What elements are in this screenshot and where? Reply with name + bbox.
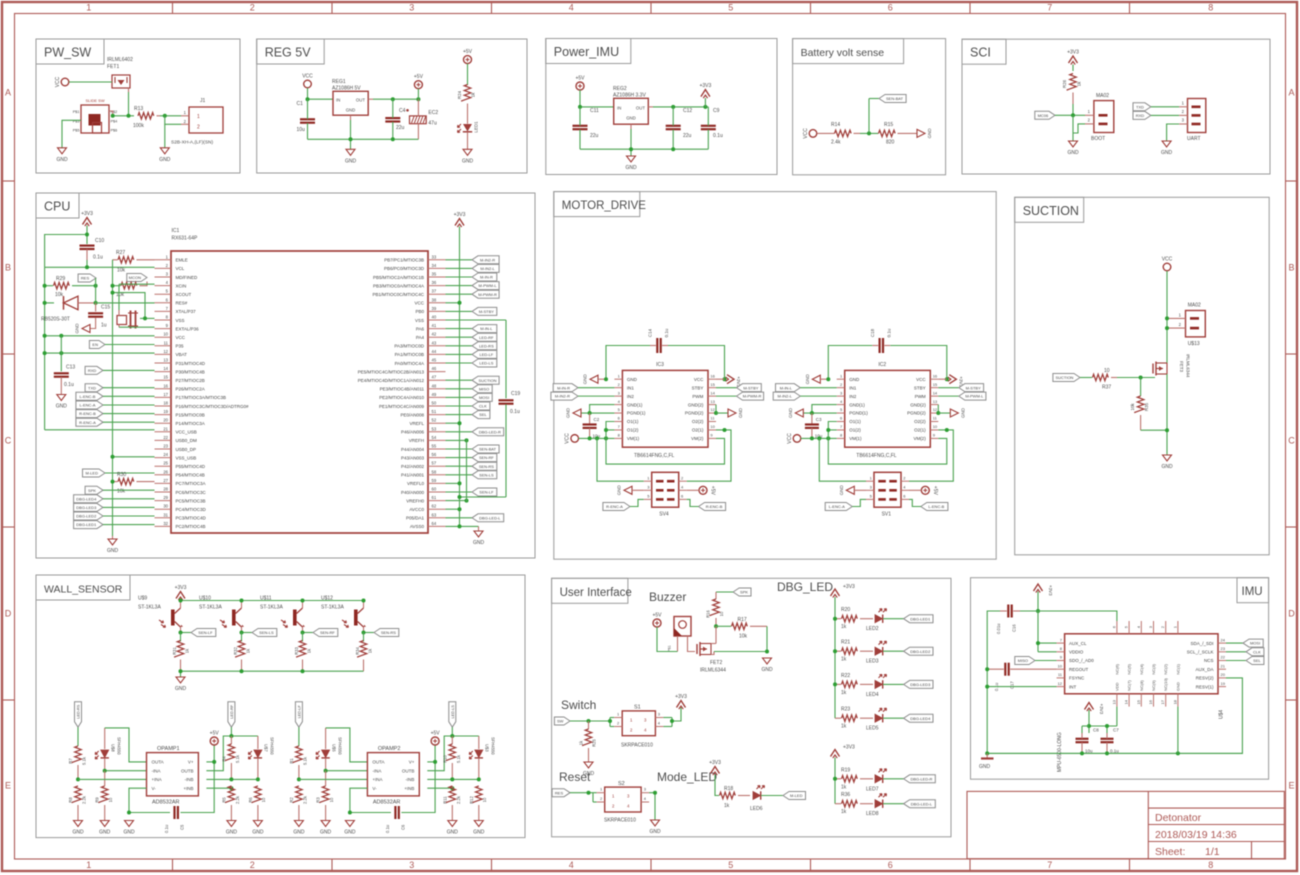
net label LED-RF (vertical)	[228, 702, 235, 728]
svg-text:R19: R19	[841, 767, 850, 773]
junction	[179, 631, 183, 635]
svg-text:PE3/MTIOC4B/AN011: PE3/MTIOC4B/AN011	[380, 387, 425, 392]
svg-text:RXD: RXD	[1136, 113, 1145, 118]
svg-text:TXD: TXD	[88, 385, 96, 390]
wire +5V down	[417, 89, 419, 100]
svg-text:SPK: SPK	[88, 488, 96, 493]
svg-text:0.1u: 0.1u	[1110, 749, 1119, 754]
svg-text:O1(1): O1(1)	[849, 419, 861, 424]
svg-text:WALL_SENSOR: WALL_SENSOR	[44, 584, 123, 596]
svg-text:LED2: LED2	[866, 626, 879, 632]
svg-text:R7: R7	[68, 758, 73, 764]
svg-text:R13: R13	[134, 106, 143, 112]
net label M-STBY	[938, 384, 983, 392]
svg-text:43: 43	[432, 340, 437, 345]
wire -INA row	[103, 769, 147, 773]
op-amp OPAMP1 AD8532AR	[147, 746, 199, 806]
svg-text:C9: C9	[713, 108, 720, 114]
net label LED-RS (vertical)	[75, 702, 82, 728]
svg-text:C2: C2	[594, 417, 600, 422]
svg-text:13: 13	[710, 399, 715, 404]
LED U$3 SFH4550	[469, 736, 495, 779]
svg-text:14: 14	[163, 366, 168, 371]
wire R14 to node	[860, 132, 878, 134]
svg-text:5.1k: 5.1k	[235, 754, 240, 763]
wire GND(1)/PGND(1)	[803, 405, 836, 415]
svg-text:R27: R27	[116, 250, 125, 256]
net label CLK (IMU)	[1226, 648, 1264, 656]
svg-text:PGND(2): PGND(2)	[907, 411, 926, 416]
net label L-ENC-B	[76, 392, 155, 400]
svg-text:1k: 1k	[841, 809, 847, 815]
svg-text:C13: C13	[66, 365, 75, 371]
svg-text:+3V3: +3V3	[175, 585, 187, 591]
net label LED-LS (vertical)	[449, 702, 456, 728]
svg-text:M-PWM-L: M-PWM-L	[965, 394, 984, 399]
svg-text:C5: C5	[180, 824, 185, 830]
svg-text:GND: GND	[625, 165, 637, 171]
junction	[1036, 609, 1040, 613]
svg-text:GND: GND	[72, 830, 84, 836]
svg-text:IN2: IN2	[849, 394, 857, 399]
svg-text:53: 53	[432, 426, 437, 431]
svg-text:RB520S-30T: RB520S-30T	[41, 317, 70, 323]
svg-text:ST-1KL3A: ST-1KL3A	[321, 605, 344, 611]
svg-text:GND: GND	[345, 158, 357, 164]
svg-text:SLIDE SW: SLIDE SW	[86, 98, 105, 103]
svg-text:P42/AN002: P42/AN002	[401, 464, 425, 469]
svg-text:VCC_USB: VCC_USB	[176, 430, 197, 435]
svg-text:EXTAL/P36: EXTAL/P36	[176, 326, 200, 331]
svg-text:PB1/MTIOC0C/MTIOC4C: PB1/MTIOC0C/MTIOC4C	[372, 292, 424, 297]
buzzer BZ1	[668, 617, 696, 653]
resistor R11 2.2k	[442, 786, 461, 821]
svg-text:BOOT: BOOT	[1091, 136, 1105, 142]
svg-text:LED8: LED8	[866, 811, 879, 817]
svg-text:0.1u: 0.1u	[886, 328, 891, 337]
svg-text:RX631-64P: RX631-64P	[172, 236, 199, 242]
svg-text:FET1: FET1	[107, 64, 119, 70]
svg-text:12: 12	[163, 349, 168, 354]
svg-text:SEN-RS: SEN-RS	[381, 630, 396, 635]
svg-text:R35: R35	[1144, 402, 1149, 411]
svg-text:SUCTION: SUCTION	[479, 378, 497, 383]
svg-text:RES: RES	[555, 790, 564, 795]
ground	[462, 149, 474, 164]
svg-text:VM(2): VM(2)	[691, 436, 704, 441]
svg-text:10k: 10k	[55, 292, 64, 298]
net label LED-RF	[446, 333, 497, 341]
junction	[985, 667, 989, 671]
ground (PGND)	[788, 407, 804, 418]
svg-text:15: 15	[933, 382, 938, 387]
capacitor C13 0.1u	[54, 336, 76, 395]
svg-text:STBY: STBY	[692, 385, 704, 390]
svg-text:VM(2): VM(2)	[913, 436, 926, 441]
svg-text:P35: P35	[176, 344, 185, 349]
net label SEN-RF	[446, 454, 497, 462]
connector SV4	[644, 472, 687, 517]
svg-text:VCC: VCC	[787, 433, 793, 444]
svg-text:NC(9): NC(9)	[1151, 680, 1156, 691]
svg-text:IRLML6402: IRLML6402	[107, 57, 133, 63]
svg-text:DBG-LED4: DBG-LED4	[76, 496, 97, 501]
wire to rail	[446, 499, 469, 503]
svg-text:+3V3: +3V3	[709, 760, 721, 766]
power net VCC	[302, 74, 313, 88]
wire C14 loop left	[828, 346, 872, 380]
svg-text:GND: GND	[1161, 464, 1173, 470]
svg-text:U$11: U$11	[260, 596, 272, 602]
net label SUCTION	[446, 376, 500, 384]
svg-text:GND: GND	[293, 830, 305, 836]
net label DBG-LED-R	[446, 428, 504, 436]
svg-text:10: 10	[329, 797, 334, 802]
svg-text:1k: 1k	[841, 724, 847, 730]
svg-text:OUT: OUT	[356, 98, 365, 103]
svg-text:O2(1): O2(1)	[914, 428, 926, 433]
wire O2 to SV pin2	[687, 428, 731, 481]
regulator REG2 AZ1086H 3.3V	[613, 86, 653, 129]
svg-text:O1(2): O1(2)	[627, 428, 639, 433]
svg-text:PA4: PA4	[416, 335, 425, 340]
wire RXD to UART pin2	[1151, 114, 1179, 116]
ground (pin1)	[583, 373, 609, 384]
wire R13 to J1	[160, 115, 181, 117]
svg-text:INT: INT	[1069, 684, 1077, 689]
ground (SV pin3)	[617, 485, 644, 496]
svg-text:R8: R8	[68, 797, 73, 803]
svg-text:VREFL0: VREFL0	[407, 481, 425, 486]
svg-text:D: D	[1288, 609, 1295, 619]
resistor R7 5.1k	[68, 727, 87, 779]
net label DBG-LED2	[883, 647, 933, 655]
svg-text:GND: GND	[738, 407, 743, 418]
svg-text:+5V: +5V	[652, 613, 662, 619]
ground (pin1)	[805, 373, 831, 384]
svg-text:40: 40	[432, 315, 437, 320]
svg-text:12: 12	[1058, 681, 1063, 686]
power net VCC	[565, 433, 579, 444]
svg-text:45: 45	[432, 358, 437, 363]
LED LED7	[866, 769, 887, 793]
net label DBG-LED1	[883, 615, 933, 623]
svg-text:L-ENC-A: L-ENC-A	[79, 403, 95, 408]
svg-text:P40/AN000: P40/AN000	[401, 490, 425, 495]
svg-text:17: 17	[1160, 699, 1165, 704]
capacitor EC2 47u electrolytic	[410, 99, 439, 139]
svg-text:25: 25	[163, 461, 168, 466]
svg-text:1k: 1k	[841, 657, 847, 663]
section box PW_SW	[36, 39, 240, 173]
svg-text:SEN-LS: SEN-LS	[479, 472, 494, 477]
net label SPK	[716, 588, 751, 596]
resistor R15 820	[878, 122, 917, 146]
svg-text:4: 4	[569, 3, 574, 13]
capacitor C10 0.1u	[80, 238, 105, 267]
net label M-IN-L	[776, 384, 837, 392]
IC IC3 TB6614FNG	[614, 362, 716, 459]
section box Power_IMU	[546, 39, 777, 175]
net label SEN-BAT	[446, 445, 500, 453]
resistor R6 10	[248, 786, 266, 821]
svg-text:10: 10	[710, 424, 715, 429]
frame column numbers top	[86, 3, 1213, 13]
junction	[111, 114, 131, 118]
phototransistor U$10 ST-1KL3A	[199, 596, 244, 633]
ground	[344, 821, 356, 836]
svg-text:LED-LF: LED-LF	[480, 352, 494, 357]
junction	[111, 455, 115, 459]
svg-text:R16: R16	[706, 609, 711, 617]
ground	[252, 821, 264, 836]
ground (SV pin3)	[839, 485, 866, 496]
svg-text:37: 37	[432, 289, 437, 294]
junction	[867, 131, 871, 135]
dbg led rail 1	[834, 597, 836, 718]
net label SEN-LF	[446, 488, 497, 496]
LED LED3	[866, 641, 887, 665]
junction	[111, 291, 148, 321]
net label SEN-RS	[446, 462, 497, 470]
svg-text:GND: GND	[960, 407, 965, 418]
wire +INA main row	[299, 778, 368, 780]
junction	[578, 105, 582, 109]
svg-text:SCI: SCI	[970, 46, 991, 60]
svg-text:R-ENC-B: R-ENC-B	[706, 504, 723, 509]
svg-text:IRLML6344: IRLML6344	[1186, 354, 1191, 378]
svg-text:OUTB: OUTB	[181, 769, 194, 774]
power net VCC (suction)	[1162, 257, 1173, 271]
wire +3V3 to cap rail	[1089, 707, 1117, 733]
net label SEN-RS	[364, 629, 399, 637]
svg-text:+3V3: +3V3	[675, 694, 687, 700]
svg-text:MOTOR_DRIVE: MOTOR_DRIVE	[562, 200, 646, 212]
wire INT to GND rail	[985, 685, 1056, 689]
ground	[75, 323, 91, 334]
svg-text:52: 52	[432, 418, 437, 423]
svg-text:S1: S1	[634, 705, 641, 711]
svg-text:DBG_LED: DBG_LED	[777, 580, 833, 594]
net label RXD	[1133, 111, 1151, 119]
svg-text:LED-RS: LED-RS	[77, 704, 81, 718]
svg-text:GND: GND	[175, 686, 187, 692]
net label RES	[552, 789, 570, 797]
svg-text:R25: R25	[592, 738, 597, 746]
resistor R22 1k	[835, 673, 873, 696]
svg-text:PGND(1): PGND(1)	[627, 411, 646, 416]
svg-text:V-: V-	[372, 786, 377, 791]
svg-text:5: 5	[728, 860, 733, 870]
svg-text:DBG-LED3: DBG-LED3	[76, 505, 97, 510]
svg-text:V+: V+	[188, 760, 194, 765]
svg-text:RESV(2): RESV(2)	[1196, 676, 1214, 681]
svg-text:P31/MTIOC4D: P31/MTIOC4D	[176, 361, 206, 366]
net label M-PWM-R	[446, 290, 500, 298]
net label L-ENC-B	[909, 499, 948, 510]
svg-text:C18: C18	[870, 328, 875, 337]
svg-text:10k: 10k	[739, 634, 748, 640]
svg-text:VCC: VCC	[803, 128, 809, 139]
svg-text:46: 46	[432, 366, 437, 371]
ground (suction)	[1161, 455, 1173, 470]
resistor R37 10	[1093, 368, 1118, 391]
svg-text:OUTA: OUTA	[152, 760, 164, 765]
junction	[362, 599, 366, 603]
svg-text:M-PWM-R: M-PWM-R	[478, 292, 497, 297]
svg-text:Buzzer: Buzzer	[649, 590, 686, 604]
svg-text:RES: RES	[81, 276, 90, 281]
junction	[653, 791, 657, 795]
svg-text:+3V3: +3V3	[454, 212, 466, 218]
wire J1 pin2 branch to GND	[165, 116, 181, 148]
junction	[179, 669, 305, 673]
svg-text:LED7: LED7	[866, 786, 879, 792]
svg-text:10: 10	[933, 424, 938, 429]
resistor R30 10k	[113, 472, 155, 495]
junction	[670, 719, 674, 723]
svg-text:M-IN-R: M-IN-R	[480, 275, 493, 280]
resistor R17 10k	[732, 617, 768, 640]
wire VSS row to C19 branch	[446, 319, 507, 321]
svg-text:50: 50	[432, 401, 437, 406]
svg-text:2.4k: 2.4k	[831, 140, 841, 146]
svg-text:C14: C14	[648, 328, 653, 337]
net label DBG-LED3	[74, 503, 155, 511]
section box IMU	[971, 578, 1269, 780]
net label MOSI	[446, 393, 493, 401]
ground	[56, 395, 68, 410]
svg-text:+5V: +5V	[414, 74, 424, 80]
capacitor C15 1u	[88, 303, 110, 329]
ground	[1161, 141, 1173, 156]
svg-text:2.2k: 2.2k	[235, 795, 240, 804]
svg-text:R21: R21	[841, 640, 850, 646]
wire node up to SEN-BAT	[869, 99, 879, 134]
svg-text:SEN-BAT: SEN-BAT	[479, 447, 497, 452]
svg-text:15: 15	[710, 382, 715, 387]
svg-text:2.2k: 2.2k	[456, 795, 461, 804]
tact switch S2 SKRPACE010	[597, 781, 649, 824]
svg-text:SW: SW	[557, 719, 564, 724]
ground (IMU)	[979, 753, 994, 770]
svg-text:AVCC0: AVCC0	[409, 507, 424, 512]
label U$4 (rotated)	[1219, 710, 1225, 719]
slide switch SW1	[73, 98, 118, 133]
svg-text:P05/DA1: P05/DA1	[406, 516, 425, 521]
svg-text:41: 41	[432, 323, 437, 328]
wire +5V to buzzer	[657, 627, 678, 652]
svg-text:M-LED: M-LED	[790, 793, 803, 798]
svg-text:PB0: PB0	[415, 309, 424, 314]
svg-text:RXD: RXD	[88, 368, 97, 373]
svg-text:AVSS0: AVSS0	[410, 524, 425, 529]
wire V- to C5 left / GND	[348, 788, 391, 814]
net label DBG-LED3	[883, 680, 933, 688]
frame row ticks right	[1286, 181, 1298, 700]
junction	[587, 719, 613, 723]
crystal X1 with load caps	[113, 284, 155, 328]
power net +3V3 (IMU cap)	[1085, 703, 1105, 715]
resistor R24 1k	[457, 85, 476, 124]
svg-text:6: 6	[888, 3, 893, 13]
power net VCC	[803, 128, 817, 139]
svg-text:R-ENC-A: R-ENC-A	[79, 420, 96, 425]
svg-text:0.1u: 0.1u	[64, 382, 74, 388]
svg-text:GND: GND	[927, 128, 932, 139]
wire V- to C5 left / GND	[127, 788, 170, 814]
label Mode_LED	[657, 770, 717, 784]
net label M-IN-L	[446, 325, 497, 333]
ground	[1067, 141, 1079, 156]
svg-text:PGND(2): PGND(2)	[685, 411, 704, 416]
svg-text:U$8: U$8	[111, 744, 116, 752]
svg-text:2.2k: 2.2k	[302, 795, 307, 804]
svg-text:MOSI: MOSI	[1250, 641, 1260, 646]
svg-text:P55/MTIOC4D: P55/MTIOC4D	[176, 464, 206, 469]
svg-text:0.01u: 0.01u	[996, 623, 1001, 634]
resistor R31 1k	[172, 633, 190, 672]
net label SEN-LS	[242, 629, 277, 637]
svg-text:MCON: MCON	[129, 275, 141, 280]
wire FET1 drain down	[128, 92, 130, 116]
title block date	[1155, 829, 1237, 841]
svg-text:P43/AN003: P43/AN003	[401, 455, 425, 460]
svg-text:GND: GND	[849, 377, 860, 382]
phototransistor U$12 ST-1KL3A	[321, 596, 366, 633]
net label M-LED	[783, 792, 806, 800]
power net VCC	[787, 433, 801, 444]
power net +5V (opamp)	[210, 731, 220, 746]
svg-text:10: 10	[482, 797, 487, 802]
resistor R5 2.2k	[221, 786, 240, 821]
svg-text:OUTA: OUTA	[372, 760, 384, 765]
wire vflag2 down	[229, 727, 233, 738]
wire MA02 pin2 to GND rail	[1073, 124, 1085, 133]
IC U1 RX631-64P (IC1)	[155, 228, 446, 533]
resistor R29 10k	[45, 276, 96, 298]
svg-text:22u: 22u	[396, 125, 405, 131]
svg-text:VSS: VSS	[415, 318, 424, 323]
svg-text:GND(1): GND(1)	[849, 402, 865, 407]
ground	[72, 821, 84, 836]
capacitor C5 0.1u	[164, 806, 185, 833]
svg-text:R34: R34	[355, 646, 360, 654]
junction	[240, 599, 244, 603]
wire to +3V3 rail	[446, 421, 462, 425]
resistor R16 10	[706, 592, 725, 626]
net label M-PWM-L	[446, 282, 500, 290]
ground	[320, 821, 332, 836]
svg-text:IN: IN	[336, 98, 340, 103]
svg-text:NC(4): NC(4)	[1139, 663, 1144, 674]
ground	[447, 821, 459, 836]
net label M-STBY	[716, 384, 761, 392]
wire switch to R13	[113, 115, 134, 117]
svg-text:PB5/MTIOC2A/MTIOC1B: PB5/MTIOC2A/MTIOC1B	[373, 275, 424, 280]
svg-text:NC(1): NC(1)	[1175, 663, 1180, 674]
wire to REG2 in	[580, 106, 614, 108]
svg-text:0.1u: 0.1u	[164, 824, 169, 833]
ground	[345, 149, 357, 164]
svg-text:IN: IN	[617, 105, 621, 110]
section box REG 5V	[257, 39, 527, 173]
svg-text:1k: 1k	[841, 784, 847, 790]
ground (right)	[473, 526, 485, 546]
capacitor C4 22u	[385, 99, 409, 139]
svg-text:1/1: 1/1	[1205, 846, 1220, 858]
svg-text:38: 38	[432, 297, 437, 302]
